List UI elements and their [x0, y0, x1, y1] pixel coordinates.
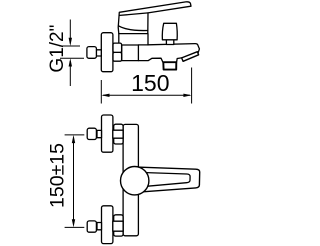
svg-text:G1/2": G1/2" — [47, 25, 68, 73]
svg-text:150±15: 150±15 — [47, 143, 69, 208]
svg-text:150: 150 — [131, 70, 169, 96]
